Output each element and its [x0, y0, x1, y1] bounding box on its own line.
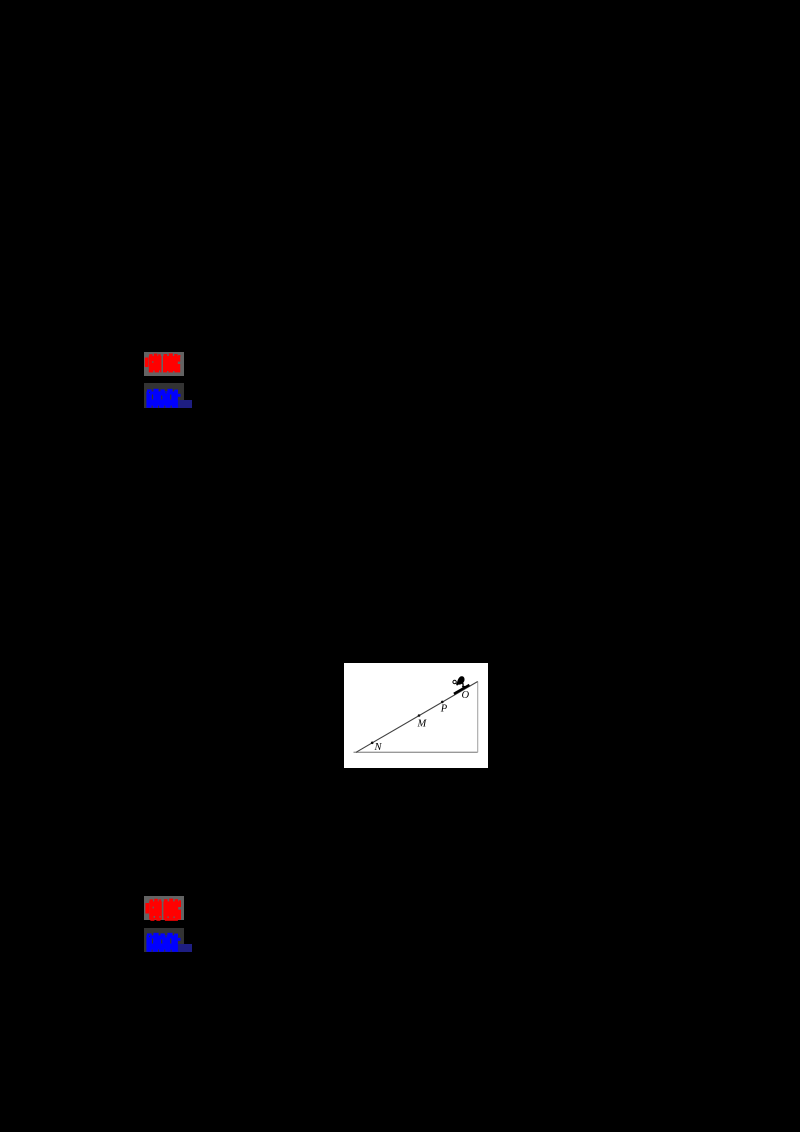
point M dot [418, 714, 421, 717]
triangle right edge [477, 682, 479, 753]
answer label 1 (red 答案 on gray) [144, 352, 184, 376]
white figure background [344, 663, 488, 768]
svg-text:P: P [440, 703, 448, 714]
analysis label 2 (blue 解析 on dark gray + navy highlight) [144, 928, 184, 952]
analysis label 1 (blue 解析 on dark gray + navy highlight) [144, 383, 184, 408]
skier leg and boot [462, 682, 466, 688]
skier pole grip ring [453, 680, 456, 683]
point P dot [441, 701, 444, 704]
point N dot [371, 742, 374, 745]
physics diagram: skier on incline with points O P M N [344, 663, 488, 768]
triangle base [354, 751, 478, 753]
skier body [457, 676, 465, 684]
svg-text:M: M [417, 718, 428, 729]
svg-text:N: N [374, 742, 383, 753]
svg-text:O: O [462, 690, 470, 701]
incline (hypotenuse) [356, 682, 478, 753]
skier arm [456, 682, 460, 686]
answer label 2 (red 答案 on gray) [144, 896, 184, 921]
ski [454, 685, 470, 694]
